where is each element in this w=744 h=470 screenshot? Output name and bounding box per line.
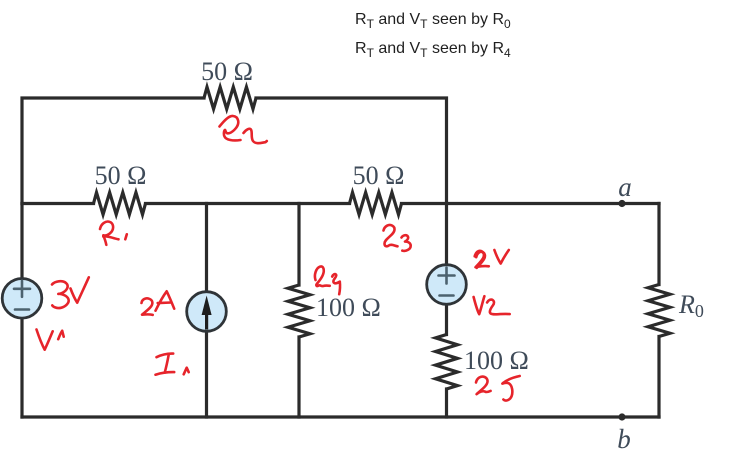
- wire: right vertical lower: [657, 337, 660, 418]
- red annotation 3V (handwritten): [52, 281, 69, 308]
- voltage source V2 plus sign: [439, 268, 455, 284]
- svg-text:R0: R0: [678, 290, 704, 321]
- wire: current source branch upper: [205, 204, 208, 294]
- resistor R4 zigzag (100 ohm, vertical): [288, 285, 310, 337]
- red annotation V2 (handwritten): [474, 296, 485, 314]
- red annotation R4 (handwritten): [315, 266, 330, 286]
- resistor R0 zigzag (right branch): [648, 285, 670, 337]
- svg-text:RT and VT seen by R0: RT and VT seen by R0: [355, 11, 511, 31]
- wire: V2 branch between source and R5: [445, 305, 448, 335]
- wire: current source branch lower: [205, 331, 208, 418]
- wire: top right segment with corner down to middle: [256, 98, 447, 204]
- resistor R5 zigzag (100 ohm, vertical below V2): [436, 335, 458, 390]
- red annotation 2V (handwritten): [475, 251, 489, 267]
- red annotation R3 (handwritten): [384, 225, 398, 246]
- red annotation I1 (handwritten): [157, 354, 174, 358]
- svg-text:b: b: [617, 424, 631, 454]
- red annotation R5 (handwritten): [476, 377, 491, 395]
- svg-text:100 Ω: 100 Ω: [464, 346, 529, 375]
- current source I1 arrow: [202, 296, 212, 330]
- voltage source V2 circle: [427, 265, 467, 305]
- wire: V2 branch upper (crosses middle wire): [445, 204, 448, 266]
- wire: middle horizontal seg 2: [146, 202, 350, 205]
- red annotation V1 (handwritten): [37, 330, 53, 350]
- wire: middle horizontal seg 1: [22, 202, 94, 205]
- resistor R3 zigzag (50 ohm, middle wire right): [350, 193, 402, 215]
- wire: V2 branch lower: [445, 389, 448, 417]
- resistor R2 zigzag (50 ohm, top wire): [204, 87, 256, 109]
- wire: bottom horizontal: [22, 415, 659, 418]
- svg-text:a: a: [618, 172, 632, 202]
- red annotation R2 (handwritten): [220, 116, 241, 140]
- node b dot: [618, 413, 625, 420]
- svg-text:100 Ω: 100 Ω: [316, 293, 381, 322]
- wire: left vertical lower (V1 to bottom): [20, 319, 23, 418]
- voltage source V1 circle: [2, 279, 42, 319]
- svg-text:50 Ω: 50 Ω: [201, 57, 253, 86]
- red annotation 2A (handwritten): [142, 298, 153, 315]
- node a dot: [618, 200, 625, 207]
- voltage source V1 minus sign: [15, 308, 29, 311]
- voltage source V1 plus sign: [14, 281, 30, 297]
- svg-text:50 Ω: 50 Ω: [353, 161, 405, 190]
- svg-text:50 Ω: 50 Ω: [95, 161, 147, 190]
- wire: left vertical upper (middle wire to V1): [20, 204, 23, 280]
- wire: middle horizontal seg 3: [402, 202, 660, 205]
- voltage source V2 minus sign: [440, 294, 454, 297]
- red annotation R1 (handwritten): [100, 222, 113, 245]
- svg-text:RT and VT seen by R4: RT and VT seen by R4: [355, 40, 511, 60]
- wire: right vertical upper: [657, 204, 660, 285]
- wire: R4 branch upper: [297, 204, 300, 286]
- resistor R1 zigzag (50 ohm, middle wire left): [94, 193, 146, 215]
- wire: R4 branch lower: [297, 337, 300, 417]
- wire: top left segment: [22, 98, 204, 204]
- current source I1 circle: [187, 292, 227, 332]
